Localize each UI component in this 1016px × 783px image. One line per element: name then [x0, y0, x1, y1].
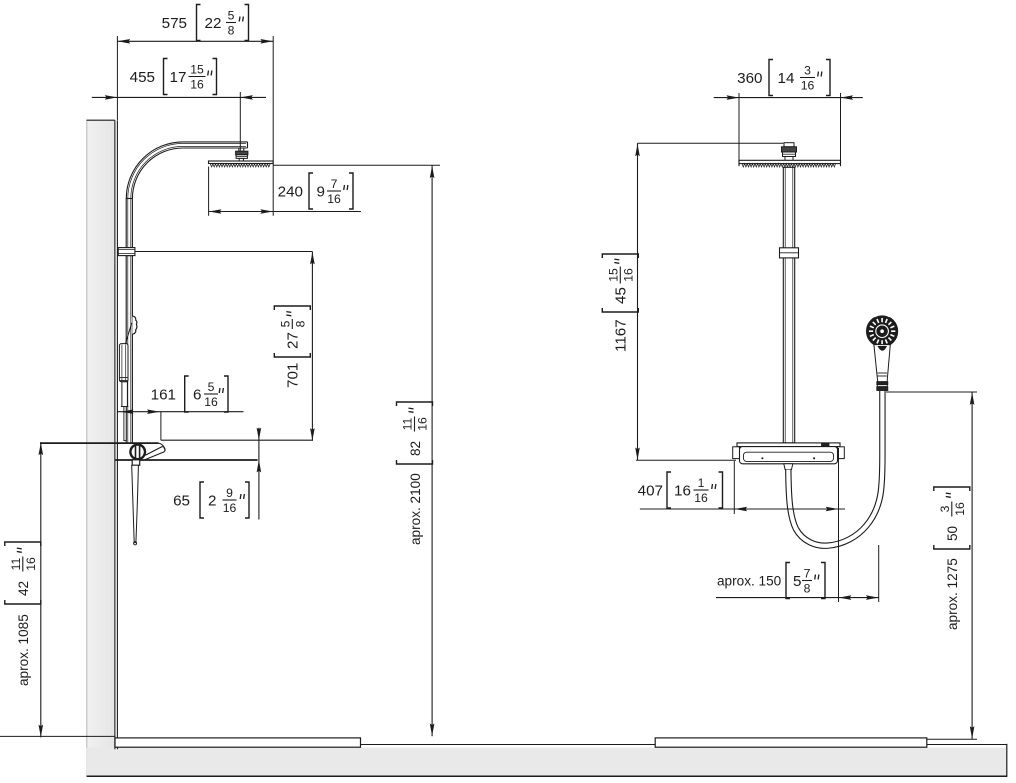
svg-text:1167: 1167: [613, 319, 630, 352]
svg-text:16: 16: [24, 557, 38, 571]
svg-text:7: 7: [804, 567, 811, 581]
svg-text:45: 45: [613, 287, 630, 304]
svg-text:16: 16: [223, 501, 237, 515]
dim 65: [258, 428, 260, 520]
svg-text:8: 8: [804, 582, 811, 596]
svg-text:aprox. 2100: aprox. 2100: [408, 473, 423, 545]
wand hanging below valve: [132, 465, 139, 542]
drop pipe right view: [783, 167, 794, 443]
svg-text:5: 5: [208, 380, 215, 394]
svg-text:407: 407: [638, 482, 663, 499]
dim aprox 1275: [886, 391, 977, 393]
svg-text:3: 3: [804, 64, 811, 78]
wall inner face: [115, 120, 118, 749]
svg-text:65: 65: [173, 492, 190, 509]
svg-text:11: 11: [401, 417, 415, 430]
svg-text:aprox. 1275: aprox. 1275: [945, 558, 960, 630]
svg-text:9: 9: [317, 183, 325, 200]
dim 407: [733, 461, 735, 514]
dim aprox 2100: [273, 164, 440, 166]
svg-text:5: 5: [278, 320, 292, 327]
svg-text:16: 16: [953, 502, 967, 516]
svg-text:8: 8: [228, 24, 235, 38]
svg-text:aprox. 150: aprox. 150: [717, 573, 782, 588]
svg-text:5: 5: [793, 573, 801, 590]
curved arm bend: [126, 142, 183, 199]
dim 360: [738, 93, 740, 160]
svg-text:15: 15: [190, 63, 204, 77]
svg-text:27: 27: [285, 332, 302, 349]
arm-to-head connector nut: [239, 148, 244, 151]
svg-text:22: 22: [205, 15, 222, 32]
svg-text:3: 3: [938, 505, 952, 512]
overhead shower head (front view): [739, 160, 841, 163]
svg-text:6: 6: [193, 386, 201, 403]
pipe coupling: [780, 248, 799, 258]
horizontal shower arm: [183, 141, 248, 143]
svg-text:82: 82: [408, 441, 423, 456]
svg-text:161: 161: [151, 386, 176, 403]
valve knob: [130, 445, 145, 460]
hose connector bands: [877, 382, 888, 385]
dim aprox 1085: [40, 442, 42, 737]
hand shower holder on pipe: [132, 316, 137, 334]
ceiling connector right view: [784, 143, 794, 147]
mixer valve (front view): [737, 443, 840, 447]
mixer valve deck lines (side view): [161, 439, 313, 441]
svg-text:16: 16: [327, 192, 341, 206]
svg-text:2: 2: [208, 492, 216, 509]
dim 240: [208, 167, 210, 216]
hand shower (front view): [867, 316, 898, 347]
svg-text:5: 5: [228, 9, 235, 23]
svg-text:16: 16: [204, 395, 218, 409]
svg-text:15: 15: [606, 268, 620, 282]
wall: [87, 120, 115, 776]
riser pipe left view: [126, 199, 132, 248]
svg-text:16: 16: [190, 78, 204, 92]
svg-text:42: 42: [16, 581, 31, 596]
hand shower resting (side view): [119, 344, 128, 382]
wall bracket collar: [118, 248, 135, 256]
shower tray left view: [115, 738, 361, 747]
hand shower handle: [874, 345, 890, 382]
svg-text:11: 11: [9, 557, 23, 570]
svg-text:17: 17: [170, 69, 187, 86]
dim 1167: [638, 142, 784, 144]
svg-text:16: 16: [801, 79, 815, 93]
svg-text:360: 360: [737, 70, 762, 87]
floor slab: [87, 748, 1007, 776]
overhead shower head (side view): [209, 161, 274, 164]
dim 455: [92, 96, 266, 98]
svg-text:240: 240: [278, 183, 303, 200]
svg-text:16: 16: [416, 417, 430, 431]
svg-text:701: 701: [285, 363, 302, 388]
shower hose: [788, 391, 882, 546]
svg-text:575: 575: [162, 15, 187, 32]
svg-text:9: 9: [226, 486, 233, 500]
floor reference line right: [927, 738, 977, 740]
floor reference line left: [0, 735, 115, 737]
svg-text:50: 50: [945, 525, 960, 541]
nut below knob: [132, 460, 140, 466]
svg-text:7: 7: [331, 177, 338, 191]
svg-text:1: 1: [698, 476, 705, 490]
svg-text:aprox. 1085: aprox. 1085: [16, 614, 31, 686]
dim 701: [135, 251, 313, 253]
svg-text:455: 455: [130, 69, 155, 86]
svg-text:16: 16: [622, 268, 636, 282]
dim aprox 150: [716, 597, 879, 599]
svg-text:16: 16: [674, 482, 691, 499]
shower tray right view: [655, 738, 927, 747]
hose outlet: [784, 464, 793, 470]
svg-text:8: 8: [294, 320, 308, 327]
svg-text:14: 14: [778, 70, 795, 87]
dim 575: [116, 36, 118, 120]
valve lever blade: [145, 447, 162, 456]
svg-text:16: 16: [694, 491, 708, 505]
dim 161: [117, 411, 243, 413]
